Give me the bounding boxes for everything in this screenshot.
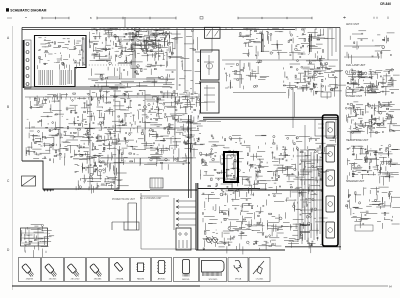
power switch S601 [22,176,36,186]
bold rule y190 left extension [114,190,150,192]
header tick marks far left [7,17,27,20]
legend SIP STK2025 with pin comb [202,261,225,282]
header small connector box [200,17,203,20]
left rail wires [141,193,196,249]
tuning capacitor hatch right edge [83,38,86,66]
function switch S201 upper box [201,50,220,80]
tuner coil group L102 [47,70,52,85]
legend lamp LT-0301 [253,261,264,281]
driver section thin box outline [207,121,221,123]
muting small box [321,92,331,97]
heat-sink bold frame [323,115,339,246]
svg-text:No.1 CHASSIS UNIT: No.1 CHASSIS UNIT [140,197,162,200]
power transformer T601 [176,228,191,250]
tone amp cluster [283,62,346,99]
fragment circuit POWER UNIT [345,101,400,140]
long wire y163 [100,158,190,163]
mid-right bus [222,60,338,128]
legend small DIP HA1196 [136,263,145,281]
svg-text:5P01A: 5P01A [235,278,242,281]
heavy vertical bus bar [196,183,198,250]
tuner bottom double rule [24,87,118,89]
svg-text:DIAL LAMP UNIT: DIAL LAMP UNIT [346,64,366,67]
vertical bus pair x133 [133,34,135,78]
page fold hairline [12,26,14,290]
main border top double rule [22,28,340,30]
bias network [265,150,330,201]
tuner interior components Q101-Q103 [38,38,87,71]
tick comb along top bus [92,28,168,31]
test point oval marker [134,28,140,32]
legend DIP AN7062 [157,261,166,281]
legend DIP M5152L with pin hatch [182,260,190,282]
legend row boxes [19,258,271,282]
fragment circuit SPEAKER UNIT [345,187,400,229]
svg-text:SCHEMATIC DIAGRAM: SCHEMATIC DIAGRAM [10,8,46,12]
main border left edge [21,28,23,162]
speaker terminals [300,225,373,239]
IF long horizontal wires [88,79,175,95]
svg-text:AM IF UNIT: AM IF UNIT [346,23,360,26]
bold separation rule [203,117,338,119]
long vertical rails x302-318 [298,150,320,244]
MPX decoder section IC201 [74,90,207,157]
bottom page rule [12,285,200,287]
svg-text:POWER TRANS UNIT: POWER TRANS UNIT [112,198,136,201]
mid bus wires [25,90,200,188]
header label B and middle ruler [90,17,176,20]
svg-text:A: A [7,36,10,40]
fragment circuit AM IF UNIT [347,31,395,64]
top cluster B [288,29,335,68]
fragment F1 bottom rail [344,46,380,57]
wires to heat-sink [300,125,322,210]
power amp input dense cluster [199,150,271,202]
FM IF amplifier dense band (Q105-Q112) [89,28,181,61]
svg-text:2SC945: 2SC945 [49,279,57,281]
AM tuner section Q201-Q204 [26,93,82,166]
main border right edge [339,28,341,251]
dotted alignment row [86,64,130,66]
relay box RY101 [315,120,336,137]
tuner coil group L101 [39,70,44,85]
svg-text:2SA733: 2SA733 [26,278,34,281]
vertical wire x294 [294,92,296,117]
fuse F601 [43,189,54,192]
tick comb along mid bus y97 [30,97,107,100]
transition sparse strip x172-200 [172,30,201,89]
mains primary loop [112,203,139,230]
svg-text:LT-0301: LT-0301 [256,279,264,281]
pcb edge double bus x188 [189,115,192,198]
svg-text:CR-840: CR-840 [380,2,391,6]
voltage selector components [21,224,54,257]
svg-text:POWER UNIT: POWER UNIT [346,95,362,98]
mid strip texture y148-165 [119,148,196,170]
svg-text:64: 64 [389,286,392,289]
fragment circuit HEADPHONE UNIT [347,145,400,186]
svg-text:2SC1740: 2SC1740 [71,279,81,281]
connector CB101 arrows [174,198,196,230]
legend clip 5P01A [234,260,242,280]
bold rule under power amp [228,189,322,191]
volume control cluster [224,60,269,89]
svg-text:2SK68A: 2SK68A [116,278,124,281]
legend transistor package 2SD386 [90,264,103,281]
svg-text:SPEAKER UNIT: SPEAKER UNIT [346,180,365,183]
legend transistor package 2SC1740 [67,264,80,281]
svg-text:HA1196: HA1196 [137,278,145,281]
output transistors Q413-Q417 packages [326,122,335,238]
tick drops from top bus [226,28,330,31]
IF detector dark cluster [138,34,173,56]
voltage selector table [21,228,48,246]
tuner coil group L103 [60,70,65,85]
svg-text:STK2025: STK2025 [209,279,219,281]
driver stage sparse band [209,135,337,156]
function switch S202 lower box [201,82,220,113]
right top vertical wires [328,28,336,60]
svg-text:C: C [7,179,10,183]
IC401 heavy outline [224,152,238,182]
header right ticks [343,17,388,20]
legend FET package 2SK68A [114,262,124,280]
diode bridge D601 D602 [206,236,218,244]
legend transistor package 2SA733 [22,264,35,281]
equalizer section lower [75,151,129,194]
wire y92 center [233,92,286,94]
svg-text:D: D [7,248,10,252]
right top section [300,63,337,92]
svg-text:B: B [7,105,9,109]
FM front-end block bold notched frame [35,36,87,87]
coil pairs in top clusters [262,34,312,52]
IF lower sparse area wires [90,55,184,92]
svg-text:2SD386: 2SD386 [94,279,102,281]
fragment circuit DIAL LAMP UNIT [345,69,399,96]
title heading: SCHEMATIC DIAGRAM [6,8,47,12]
main border bottom segments [150,189,341,251]
signal meter M101 [195,27,220,52]
header scale ruler right [238,17,312,19]
svg-text:HEADPHONE UNIT: HEADPHONE UNIT [346,139,369,142]
tuner coil group L104 [68,70,72,84]
input jack column J101-J106 with bold rail [24,40,32,88]
stereo decoder strip [239,28,288,59]
main border staircase bottom-left [22,150,119,189]
svg-text:B: B [90,17,92,20]
connector block CN102 [150,178,163,188]
svg-text:M5152L: M5152L [182,279,190,281]
svg-text:AN7062: AN7062 [158,278,166,281]
legend transistor package 2SC945 [45,264,58,281]
header scale ruler left [42,17,69,19]
long vertical feed wires [125,17,193,95]
rectifier regulator section [203,198,328,254]
